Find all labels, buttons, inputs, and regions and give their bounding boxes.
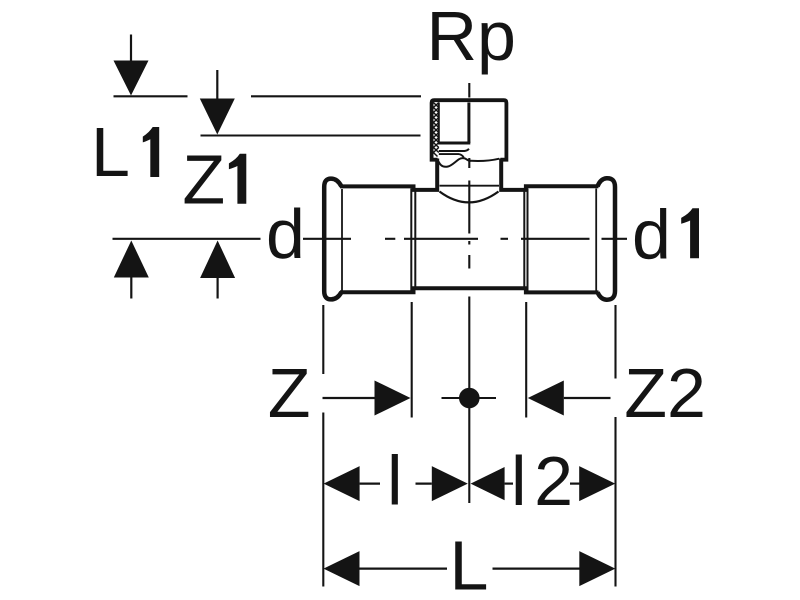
svg-text:Rp: Rp <box>427 0 516 75</box>
flange underside sag line (right half) <box>471 159 500 161</box>
thread runout line with down-curl <box>439 154 464 158</box>
right step thin edge lines <box>523 192 525 288</box>
bottom outline: left socket, center section, right socket <box>340 288 599 292</box>
svg-text:l: l <box>387 441 403 519</box>
tangent line across branch opening <box>440 185 500 187</box>
label L1 digit 1 <box>143 127 159 177</box>
left capsule inner edge line <box>341 189 343 291</box>
L left arrowhead <box>324 551 360 586</box>
svg-text:l2: l2 <box>511 442 573 520</box>
dimension l2 tail left <box>505 483 513 485</box>
svg-text:L: L <box>450 527 489 600</box>
svg-text:d: d <box>632 195 671 273</box>
freehand break line <box>439 158 471 167</box>
L1 down arrowhead <box>114 61 149 96</box>
threaded flange outline (Rp socket) <box>432 100 507 160</box>
dimension l line right <box>416 483 432 485</box>
Z2 left arrowhead <box>528 381 564 416</box>
reference point cross line <box>442 397 497 399</box>
svg-text:Z: Z <box>268 354 311 432</box>
section window right edge on branch centerline <box>467 103 470 144</box>
l right arrowhead <box>432 466 468 501</box>
L1 lower leader <box>130 278 132 299</box>
L1 up arrowhead <box>114 241 149 278</box>
dimension L line left <box>360 567 448 569</box>
Z1 up arrowhead <box>200 241 235 279</box>
branch centerline extension below body <box>468 297 470 504</box>
extension line at right fitting end <box>614 305 616 379</box>
dimension Z1 reference line <box>201 134 421 136</box>
left socket top outline with step and left branch neck <box>340 159 437 190</box>
Z1 lower leader <box>217 278 219 299</box>
dimension L1 upper leader <box>130 35 132 61</box>
l left arrowhead <box>324 466 360 501</box>
dimension Z2 line <box>564 397 611 399</box>
reference point dot <box>459 388 480 409</box>
vertical centerline of branch (dash-dot) <box>468 83 470 269</box>
svg-text:Z2: Z2 <box>624 354 706 432</box>
l2 left arrowhead <box>471 467 505 500</box>
left step thin edge lines <box>410 189 412 291</box>
dimension L line right <box>493 567 581 569</box>
dimension L1 reference line (broken around Z1 leader) <box>114 95 188 97</box>
thread bore left wall <box>438 103 440 144</box>
svg-text:d: d <box>266 195 305 273</box>
extension line at left fitting end <box>322 305 324 374</box>
label Z1 digit 1 <box>229 154 246 204</box>
dimension l2 tail right <box>570 483 581 485</box>
svg-text:Z: Z <box>182 141 225 219</box>
right branch neck and top-right outline with step <box>501 159 598 190</box>
dimension l line left <box>360 483 380 485</box>
dimension Z line <box>323 397 375 399</box>
Z1 down arrowhead <box>200 99 235 135</box>
horizontal centerline of run (dash-dot) <box>113 238 628 240</box>
l2 right arrowhead <box>579 466 615 501</box>
thread runout line with hook <box>439 149 469 151</box>
extension line at right step <box>525 302 527 418</box>
dimension Z1 upper leader <box>216 70 218 99</box>
saddle arc at branch/body intersection <box>440 192 499 203</box>
thread hatch band <box>433 103 438 157</box>
right capsule inner edge line <box>595 189 597 291</box>
svg-text:L: L <box>91 113 130 191</box>
right press socket capsule (bead) <box>598 178 616 299</box>
section window bottom edge <box>438 142 471 145</box>
L right arrowhead <box>579 551 615 586</box>
label d1 digit 1 <box>681 208 699 258</box>
Z right arrowhead <box>375 381 411 416</box>
extension line at left step <box>411 302 413 418</box>
left press socket capsule (bead) <box>324 179 341 300</box>
